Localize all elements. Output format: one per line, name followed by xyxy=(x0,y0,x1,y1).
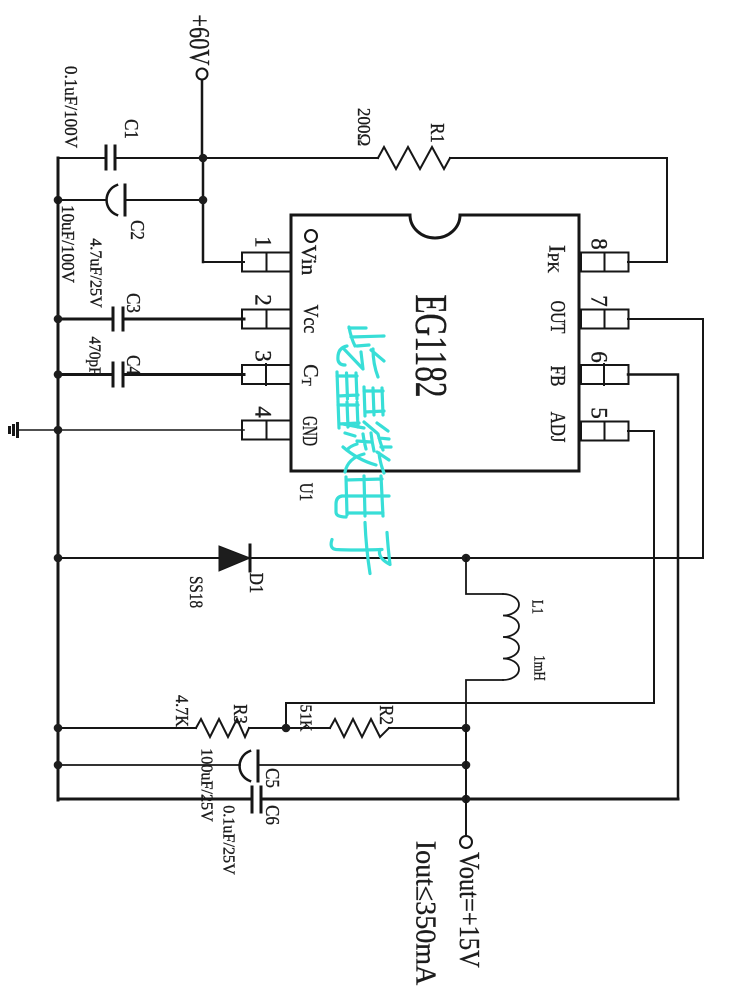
label U1 pin1 mark circle xyxy=(305,230,317,242)
svg-text:L1: L1 xyxy=(528,600,546,614)
svg-text:1mH: 1mH xyxy=(530,655,548,681)
svg-text:4.7K: 4.7K xyxy=(172,695,192,728)
svg-text:FB: FB xyxy=(546,365,569,386)
svg-text:4: 4 xyxy=(251,406,276,418)
capacitor C2 electrolytic xyxy=(107,185,125,215)
wire C5 row y=765 xyxy=(58,764,466,766)
junction dot rail-C4 xyxy=(54,370,63,379)
pin 2 box xyxy=(242,310,291,329)
pin 4 box xyxy=(242,421,291,440)
wire pin1 Vin connection xyxy=(203,261,244,263)
pin 3 box xyxy=(242,364,291,385)
svg-text:Vin: Vin xyxy=(297,245,321,276)
svg-text:C2: C2 xyxy=(126,220,149,240)
node +60V terminal xyxy=(184,14,215,79)
wire GND row y=430 xyxy=(58,429,244,431)
junction dot R2-output xyxy=(462,724,471,733)
wire C4 row y=374.5 xyxy=(58,373,244,376)
watermark text xyxy=(331,327,391,574)
svg-text:2: 2 xyxy=(251,294,276,306)
pin 5 box xyxy=(581,422,629,441)
svg-text:3: 3 xyxy=(251,350,276,362)
svg-text:OUT: OUT xyxy=(545,301,569,334)
svg-text:Vcc: Vcc xyxy=(299,305,322,334)
junction dot C5-output xyxy=(462,761,471,770)
svg-text:EG1182: EG1182 xyxy=(405,294,456,397)
pin 6 box xyxy=(581,364,629,385)
wire left rail xyxy=(57,158,60,800)
svg-text:C1: C1 xyxy=(120,119,143,139)
svg-text:+60V: +60V xyxy=(184,14,215,66)
wire pin7 OUT to switch node xyxy=(628,319,703,558)
svg-text:ADJ: ADJ xyxy=(545,412,568,443)
svg-text:7: 7 xyxy=(587,295,612,307)
svg-text:Iout≤350mA: Iout≤350mA xyxy=(410,841,441,986)
wire C3 row y=319 xyxy=(58,318,244,321)
svg-text:200Ω: 200Ω xyxy=(354,108,375,146)
capacitor C6 xyxy=(252,787,261,812)
junction dot rail-diode xyxy=(54,554,63,563)
svg-text:51K: 51K xyxy=(296,705,313,732)
junction dot rail-R3 xyxy=(54,724,63,733)
inductor L1 xyxy=(466,558,519,728)
svg-text:CT: CT xyxy=(298,364,321,386)
svg-text:R1: R1 xyxy=(426,123,449,143)
wire R1 row y=158 right of node xyxy=(203,157,667,159)
junction dot +60V-C2 xyxy=(199,196,208,205)
junction dot switch node xyxy=(462,554,471,563)
wire top rail y=158 left segment xyxy=(58,157,203,159)
capacitor C4 xyxy=(113,363,123,386)
junction dot rail-GND xyxy=(54,426,63,435)
pin 8 box xyxy=(581,253,629,272)
wire R1 to pin8 xyxy=(628,158,667,262)
svg-text:8: 8 xyxy=(587,238,612,250)
wire +60V feed vertical xyxy=(202,80,203,262)
wire pin6 FB down xyxy=(628,375,678,800)
wire pin5 ADJ down xyxy=(628,431,654,703)
node Vout terminal xyxy=(454,836,485,968)
wire ADJ feedback row y=703 xyxy=(286,703,654,728)
svg-text:D1: D1 xyxy=(245,573,268,594)
wire diode row y=558 xyxy=(58,557,703,559)
svg-text:0.1uF/100V: 0.1uF/100V xyxy=(61,66,82,148)
resistor R2 xyxy=(330,719,389,737)
svg-text:10uF/100V: 10uF/100V xyxy=(58,205,79,283)
op-amp U1 IC body EG1182 xyxy=(291,215,579,471)
capacitor C5 electrolytic xyxy=(240,751,258,781)
wire R3/R2 row y=728 xyxy=(58,727,466,729)
junction dot R3-R2-51K xyxy=(282,724,291,733)
svg-text:R3: R3 xyxy=(229,704,252,724)
wire output vertical to terminal xyxy=(465,728,467,836)
svg-text:C5: C5 xyxy=(261,768,284,788)
pin 7 box xyxy=(581,310,629,329)
svg-text:1: 1 xyxy=(251,236,276,248)
svg-text:Vout=+15V: Vout=+15V xyxy=(454,852,485,968)
resistor R3 xyxy=(196,719,249,737)
ground xyxy=(10,424,59,437)
svg-text:SS18: SS18 xyxy=(186,576,207,608)
svg-text:U1: U1 xyxy=(296,483,317,502)
svg-text:100uF/25V: 100uF/25V xyxy=(197,748,216,822)
wire bottom row y=799 xyxy=(58,798,678,801)
diode D1 xyxy=(219,545,250,571)
capacitor C1 xyxy=(106,146,115,169)
svg-text:C4: C4 xyxy=(122,355,145,375)
wire C2 row y=200 xyxy=(58,199,203,201)
svg-text:C3: C3 xyxy=(122,293,145,313)
capacitor C3 xyxy=(113,308,123,330)
svg-text:C6: C6 xyxy=(261,805,284,825)
svg-text:R2: R2 xyxy=(375,705,398,725)
svg-text:GND: GND xyxy=(298,416,322,446)
junction dot bottom-output xyxy=(462,795,471,804)
junction dot +60V-R1 row xyxy=(199,154,208,163)
junction dot rail-C3 xyxy=(54,315,63,324)
svg-text:5: 5 xyxy=(587,407,612,419)
resistor R1 xyxy=(378,147,450,169)
svg-text:470pF: 470pF xyxy=(85,336,103,375)
junction dot rail-C2 xyxy=(54,196,63,205)
svg-text:IPK: IPK xyxy=(545,245,570,274)
pin 1 box xyxy=(242,253,291,272)
svg-text:0.1uF/25V: 0.1uF/25V xyxy=(219,805,238,875)
svg-text:4.7uF/25V: 4.7uF/25V xyxy=(86,238,105,308)
junction dot rail-C5 xyxy=(54,761,63,770)
svg-text:6: 6 xyxy=(587,351,612,363)
